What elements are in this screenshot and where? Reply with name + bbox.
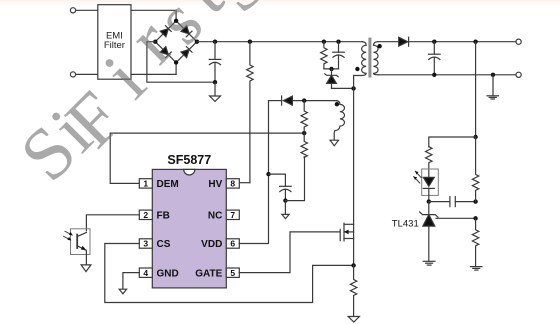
wire GATE pin5 [239, 232, 340, 273]
wire output plus [409, 41, 516, 43]
ground aux winding [330, 140, 338, 146]
transformer primary winding [354, 42, 367, 76]
wire [324, 68, 339, 70]
wire VDD cap top [269, 174, 286, 186]
pin 1 box [139, 179, 152, 189]
pin 6 box [226, 239, 239, 249]
junction bridge left [153, 40, 157, 44]
resistor HV startup [247, 42, 253, 183]
earth ground output [487, 75, 498, 99]
junction [248, 40, 252, 44]
TL431 shunt regulator [420, 202, 438, 262]
junction bridge bottom [174, 60, 178, 64]
svg-text:HV: HV [208, 179, 222, 190]
optocoupler phototransistor [77, 232, 86, 265]
svg-text:VDD: VDD [201, 239, 222, 250]
wire [131, 10, 176, 20]
wire GND pin4 [123, 273, 139, 289]
junction [213, 40, 217, 44]
wire [131, 63, 176, 75]
wire aux line [269, 100, 282, 102]
junction [432, 40, 436, 44]
junction [432, 73, 436, 77]
aux winding [334, 101, 344, 141]
resistor DEM upper [301, 101, 307, 134]
earth ground TL431 [423, 261, 435, 265]
wire FB pin2 [86, 215, 139, 231]
AC input terminal bottom [70, 72, 75, 77]
wire secondary bottom rail [378, 74, 516, 76]
wire divider bottom [285, 157, 304, 201]
junction DEM node [302, 131, 306, 135]
junction [473, 216, 477, 220]
snubber capacitor [333, 42, 345, 69]
EMI filter block [98, 5, 131, 80]
junction [213, 80, 217, 84]
wire clamp to drain [332, 87, 354, 89]
junction TL431 cathode [427, 199, 431, 203]
resistor DEM lower [301, 133, 307, 157]
junction [322, 40, 326, 44]
watermark SiFirst [5, 0, 283, 197]
bulk capacitor [209, 42, 221, 82]
ground primary bulk [210, 82, 221, 101]
ground opto emitter [81, 265, 91, 272]
aux polarity dot [335, 102, 339, 106]
svg-text:FB: FB [157, 210, 170, 221]
svg-text:SF5877: SF5877 [167, 153, 211, 167]
svg-text:GATE: GATE [195, 268, 222, 279]
optocoupler light arrows [64, 231, 73, 240]
wire DC minus rail [147, 42, 215, 82]
snubber resistor [321, 42, 327, 69]
junction VDD node [266, 172, 270, 176]
svg-text:TL431: TL431 [392, 218, 419, 229]
svg-text:6: 6 [230, 239, 235, 249]
bridge rectifier ring [155, 21, 197, 63]
ground sense resistor [348, 317, 359, 323]
junction bridge top [174, 19, 178, 23]
resistor divider upper [472, 137, 478, 202]
pin 5 box [226, 268, 239, 278]
wire TL431 ref [436, 217, 476, 219]
junction [336, 40, 340, 44]
ground IC [119, 289, 126, 294]
wire output divider top [475, 42, 477, 137]
junction [283, 198, 287, 202]
pin 2 box [139, 210, 152, 220]
junction [473, 40, 477, 44]
ground VDD cap [282, 201, 289, 219]
pin 3 box [139, 239, 152, 249]
pin 4 box [139, 268, 152, 278]
junction [491, 73, 495, 77]
svg-text:GND: GND [157, 268, 179, 279]
svg-text:4: 4 [143, 268, 148, 278]
transformer secondary winding [374, 42, 379, 75]
wire DC plus rail [197, 41, 362, 43]
VDD capacitor [280, 186, 292, 200]
output capacitor [429, 42, 441, 75]
IC U1 SF5877 body [152, 169, 226, 288]
resistor LED series [426, 147, 432, 178]
optocoupler LED [423, 177, 434, 201]
transformer T1 core [368, 38, 371, 78]
svg-text:2: 2 [143, 210, 148, 220]
svg-text:NC: NC [208, 210, 222, 221]
AC input terminal top [70, 8, 75, 13]
svg-text:CS: CS [157, 239, 171, 250]
VDD rectifier diode [282, 96, 293, 105]
junction [351, 86, 355, 90]
wire [76, 9, 98, 11]
top tint band [0, 0, 560, 6]
wire secondary top [378, 41, 399, 43]
optocoupler LED box [422, 169, 439, 195]
wire CS pin3 [105, 244, 354, 303]
junction bridge right [195, 40, 199, 44]
output rectifier diode [399, 37, 409, 46]
wire LED branch [429, 137, 476, 147]
wire [292, 100, 336, 102]
LED light arrows [414, 171, 422, 183]
pin 8 box [226, 179, 239, 189]
primary polarity dot [355, 67, 359, 71]
MOSFET Q1 [340, 223, 353, 265]
svg-text:DEM: DEM [157, 179, 179, 190]
junction [473, 135, 477, 139]
bridge diode bottom-left [160, 47, 171, 58]
output terminal minus [516, 72, 521, 77]
clamp zener diode [325, 69, 338, 89]
wire [76, 73, 98, 75]
junction source node [351, 263, 355, 267]
junction [473, 199, 477, 203]
pin 7 box [226, 210, 239, 220]
optocoupler transistor box [71, 229, 91, 255]
svg-text:3: 3 [143, 239, 148, 249]
earth ground divider [470, 267, 482, 271]
resistor current sense [350, 265, 356, 316]
wire drain [353, 76, 355, 225]
bridge diode top-left [160, 26, 171, 37]
bridge diode bottom-right [181, 47, 192, 58]
junction DEM divider top [302, 98, 306, 102]
svg-text:8: 8 [230, 179, 235, 189]
secondary polarity dot [377, 44, 381, 48]
resistor divider lower [472, 218, 478, 266]
junction [329, 67, 333, 71]
bridge diode top-right [181, 26, 192, 37]
wire HV pin8 [239, 182, 250, 184]
svg-text:1: 1 [143, 179, 148, 189]
svg-text:7: 7 [230, 210, 235, 220]
wire DEM pin1 [110, 133, 304, 183]
wire VDD pin6 [239, 101, 268, 244]
compensation capacitor [429, 197, 476, 207]
output terminal plus [516, 39, 521, 44]
svg-text:5: 5 [230, 268, 235, 278]
